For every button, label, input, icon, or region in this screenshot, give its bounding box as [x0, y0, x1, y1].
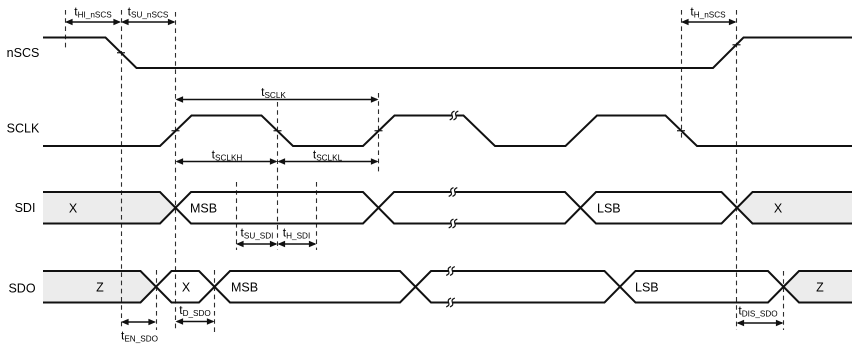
- dashed line t_SU_SDI start (x=236): [236, 182, 238, 250]
- dashed line at nSCS high start (x=65): [65, 10, 67, 49]
- SDI bus rail (lower zigzag): [43, 192, 852, 224]
- nSCS waveform: [43, 38, 852, 69]
- arrow t_DIS_SDO: [738, 322, 782, 324]
- arrow t_SCLKL: [279, 161, 377, 163]
- tick on SCLK falling edge 3: [677, 130, 685, 132]
- svg-text:X: X: [182, 281, 191, 295]
- svg-text:LSB: LSB: [635, 281, 659, 295]
- svg-text:MSB: MSB: [190, 202, 217, 216]
- svg-text:Z: Z: [816, 281, 824, 295]
- dashed line at SDO Z-to-X transition (x=156): [156, 270, 158, 330]
- SDI bus rail (upper zigzag): [43, 192, 852, 224]
- SDO bus segment Z (right, hi-Z) fill: [784, 271, 853, 303]
- tick on nSCS rising edge: [733, 44, 741, 46]
- arrow t_H_nSCS: [683, 21, 736, 23]
- arrow t_H_SDI: [279, 243, 315, 245]
- arrow t_SU_nSCS: [123, 21, 175, 23]
- arrow t_SCLK: [177, 99, 377, 101]
- svg-text:LSB: LSB: [597, 202, 621, 216]
- break symbol on SDO bottom rail: [448, 301, 452, 304]
- break symbol on SCLK high level: [452, 114, 456, 117]
- svg-text:MSB: MSB: [231, 281, 258, 295]
- SDI bus segment X (right, undefined) fill: [737, 192, 852, 224]
- SCLK waveform: [43, 116, 852, 147]
- arrow t_EN_SDO: [123, 321, 155, 323]
- dashed line at nSCS falling edge (x=121): [121, 10, 123, 327]
- break symbol on SDI top rail: [451, 190, 455, 193]
- arrow t_D_SDO: [177, 321, 213, 323]
- dashed line at SDO LSB-to-Z transition (x=783.5): [783, 271, 785, 330]
- SDO bus rail (upper zigzag): [43, 271, 852, 303]
- dashed line at first SCLK rising edge (x=175.5): [175, 12, 177, 330]
- break symbol on SDO top rail: [448, 269, 452, 272]
- dashed line at SDO X-to-MSB transition (x=214.5): [214, 270, 216, 334]
- dashed line at SCLK falling edge (x=277.5): [277, 102, 279, 250]
- dashed line at nSCS rising edge (x=736.5): [736, 10, 738, 330]
- break symbol on SDI bottom rail: [451, 222, 455, 225]
- arrow t_SCLKH: [177, 161, 276, 163]
- arrow t_HI_nSCS: [67, 21, 120, 23]
- svg-text:X: X: [69, 202, 78, 216]
- svg-text:SDI: SDI: [15, 201, 36, 215]
- dashed line t_H_SDI end (x=316.5): [316, 182, 318, 250]
- SDO bus segment Z (left, hi-Z) fill: [43, 271, 156, 303]
- SDO bus rail (lower zigzag): [43, 271, 852, 303]
- arrow t_SU_SDI: [238, 243, 277, 245]
- svg-text:nSCS: nSCS: [7, 46, 40, 60]
- tick on SCLK falling edge 1: [274, 130, 282, 132]
- svg-text:SCLK: SCLK: [7, 122, 40, 136]
- tick on nSCS falling edge: [117, 52, 125, 54]
- tick on SCLK rising edge 1: [172, 130, 180, 132]
- tick on SCLK rising edge 2: [375, 130, 383, 132]
- SDI bus segment X (left, undefined) fill: [43, 192, 176, 224]
- dashed line at SCLK second rising edge (x=378.5): [378, 93, 380, 172]
- svg-text:SDO: SDO: [8, 282, 35, 296]
- svg-text:X: X: [774, 202, 783, 216]
- svg-text:Z: Z: [96, 281, 104, 295]
- dashed line at last SCLK falling edge (x=681): [681, 10, 683, 140]
